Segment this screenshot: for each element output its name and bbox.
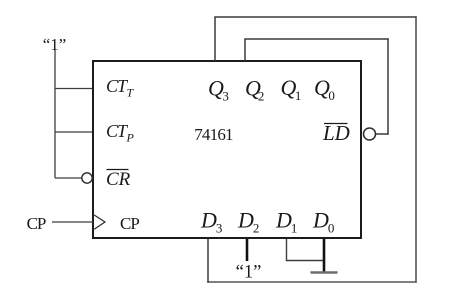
wire: Q3 output up from box top: [214, 17, 216, 61]
wire: inner feedback right run: [387, 38, 389, 134]
clock edge triangle on CP pin: [94, 215, 105, 229]
ground symbol: [311, 271, 338, 274]
wire: outer feedback top run (Q3 to right side): [214, 16, 416, 18]
inverter bubble on LD input: [364, 128, 376, 140]
wire: CP input: [52, 221, 93, 223]
svg-text:74161: 74161: [194, 125, 233, 144]
wire: outer feedback bottom run: [207, 281, 416, 283]
IC U1 74161 body: [93, 61, 361, 238]
svg-text:CP: CP: [27, 214, 46, 233]
wire: Q2 output up from box top: [244, 39, 246, 61]
svg-text:LD: LD: [322, 121, 350, 145]
svg-text:CR: CR: [106, 169, 131, 190]
wire: outer feedback right run: [415, 16, 417, 282]
wire: branch to CR bubble: [55, 177, 82, 179]
inverter bubble on CR input: [82, 173, 92, 183]
wire: inner feedback top run (Q2 to LD): [244, 38, 388, 40]
wire: D0 input down to ground: [323, 239, 326, 272]
wire: D2 input stub: [246, 239, 249, 261]
wire: D1 input stub: [286, 239, 288, 261]
wire: branch to CT_P pin: [55, 131, 93, 133]
wire: branch to CT_T pin: [55, 88, 93, 90]
wire: into LD bubble: [376, 133, 389, 135]
wire: D3 input down from box bottom: [207, 239, 209, 283]
wire: D1 to D0 tie: [287, 260, 325, 262]
svg-text:CP: CP: [120, 214, 139, 233]
svg-text:“1”: “1”: [236, 263, 262, 283]
wire: "1" net vertical bus: [54, 50, 56, 178]
